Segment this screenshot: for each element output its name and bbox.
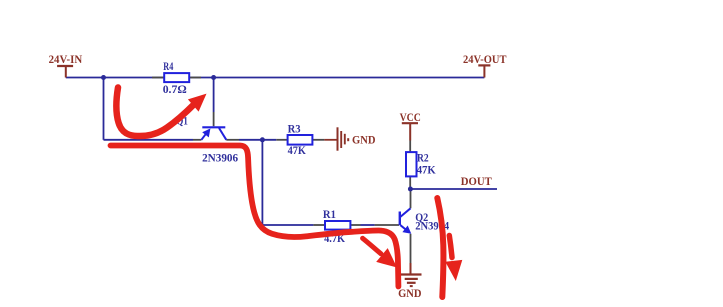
svg-text:47K: 47K bbox=[288, 143, 307, 157]
svg-text:2N3906: 2N3906 bbox=[202, 151, 238, 165]
svg-text:R4: R4 bbox=[163, 59, 173, 73]
svg-text:R1: R1 bbox=[323, 207, 336, 221]
svg-text:GND: GND bbox=[352, 133, 376, 147]
svg-text:24V-OUT: 24V-OUT bbox=[463, 52, 507, 66]
svg-text:VCC: VCC bbox=[400, 110, 421, 124]
svg-text:0.7Ω: 0.7Ω bbox=[163, 82, 187, 96]
svg-text:24V-IN: 24V-IN bbox=[49, 52, 83, 66]
svg-text:DOUT: DOUT bbox=[461, 174, 492, 188]
svg-text:GND: GND bbox=[398, 286, 422, 300]
svg-text:47K: 47K bbox=[417, 163, 437, 177]
svg-text:R3: R3 bbox=[288, 121, 301, 135]
